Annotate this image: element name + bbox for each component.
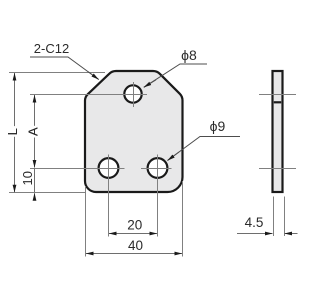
svg-text:A: A	[26, 127, 41, 136]
leader 2-C12	[30, 57, 99, 80]
side view upper hole centerline	[259, 94, 296, 96]
side view hole edge line	[274, 101, 281, 103]
extension line top edge (L dimension)	[9, 72, 105, 74]
extension line side view right (4.5 dimension)	[284, 197, 286, 237]
side view lower holes centerline	[259, 168, 296, 170]
centerline lower left hole vertical / extension for 20 dimension	[108, 155, 110, 237]
extension line left edge (40 dimension)	[85, 186, 87, 257]
side view plate section	[273, 71, 283, 192]
svg-text:ϕ9: ϕ9	[210, 118, 226, 134]
dimension 4.5 line	[237, 233, 273, 235]
svg-text:2-C12: 2-C12	[34, 41, 69, 56]
dimension A line	[34, 95, 36, 132]
extension line upper hole centerline / A dimension top	[30, 94, 147, 96]
svg-text:ϕ8: ϕ8	[181, 47, 197, 63]
leader phi8	[144, 64, 207, 87]
dimension 20 line	[109, 233, 133, 235]
hole phi8 top	[124, 85, 141, 102]
hole phi9 bottom-right	[148, 158, 168, 178]
dimension 10 line	[34, 169, 36, 193]
extension line lower holes centerline left / A dimension bottom	[30, 168, 125, 170]
centerline lower right hole horizontal	[141, 168, 172, 170]
extension line right edge (40 dimension)	[182, 181, 184, 257]
svg-text:L: L	[5, 128, 20, 135]
dimension 40 line	[86, 253, 134, 255]
extension line bottom edge (L and 10 dimensions)	[9, 192, 86, 194]
svg-text:10: 10	[20, 171, 35, 185]
dimension L line	[14, 73, 16, 132]
centerline upper hole vertical	[133, 82, 135, 107]
leader phi9	[168, 137, 241, 161]
svg-text:40: 40	[128, 238, 143, 253]
svg-text:20: 20	[127, 218, 142, 233]
centerline lower right hole vertical / extension for 20 dimension	[157, 155, 159, 237]
plate outline (front view)	[85, 71, 183, 192]
hole phi9 bottom-left	[99, 158, 119, 178]
svg-text:4.5: 4.5	[245, 215, 264, 230]
extension line side view left (4.5 dimension)	[273, 197, 275, 237]
